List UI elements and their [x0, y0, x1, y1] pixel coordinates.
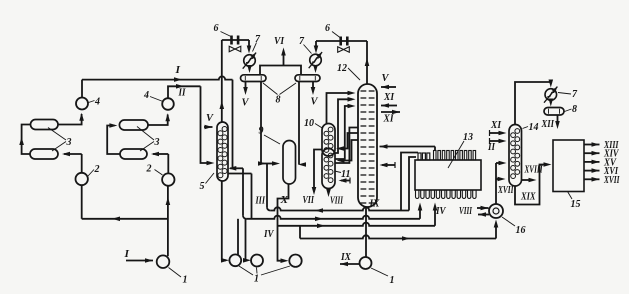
svg-text:9: 9: [259, 126, 264, 137]
svg-text:1: 1: [390, 275, 395, 286]
svg-text:XVII: XVII: [603, 175, 620, 186]
svg-text:I: I: [174, 65, 181, 76]
svg-text:11: 11: [341, 169, 350, 180]
svg-text:XI: XI: [383, 114, 395, 125]
svg-text:XI: XI: [383, 92, 395, 103]
svg-text:V: V: [206, 113, 214, 124]
svg-text:V: V: [311, 97, 319, 108]
svg-text:IV: IV: [263, 229, 274, 240]
svg-text:2: 2: [94, 164, 100, 175]
svg-text:I: I: [123, 249, 130, 260]
svg-text:V: V: [382, 73, 390, 84]
svg-text:1: 1: [254, 274, 259, 285]
svg-text:IX: IX: [369, 199, 381, 210]
svg-text:16: 16: [516, 225, 526, 236]
svg-text:VII: VII: [303, 195, 315, 206]
svg-text:6: 6: [214, 23, 219, 34]
svg-text:X: X: [279, 195, 289, 206]
svg-text:II: II: [487, 142, 496, 153]
svg-text:8: 8: [276, 95, 281, 106]
svg-text:4: 4: [143, 90, 149, 101]
svg-text:8: 8: [572, 104, 577, 115]
svg-text:10: 10: [304, 118, 314, 129]
svg-text:3: 3: [154, 137, 160, 148]
svg-text:V: V: [242, 98, 250, 109]
svg-text:1: 1: [183, 275, 188, 286]
svg-text:VIII: VIII: [330, 196, 344, 207]
svg-text:IV: IV: [435, 206, 446, 217]
svg-text:II: II: [178, 88, 187, 99]
svg-text:III: III: [255, 196, 266, 207]
svg-text:6: 6: [325, 23, 330, 34]
svg-text:5: 5: [200, 181, 205, 192]
svg-text:4: 4: [94, 97, 100, 108]
svg-text:VI: VI: [274, 36, 285, 47]
svg-text:7: 7: [572, 89, 578, 100]
svg-text:IX: IX: [340, 252, 352, 263]
svg-text:XIX: XIX: [520, 192, 536, 203]
svg-text:14: 14: [529, 122, 539, 133]
svg-text:15: 15: [571, 199, 581, 210]
svg-text:3: 3: [66, 137, 72, 148]
svg-text:XII: XII: [541, 119, 555, 130]
svg-text:VIII: VIII: [459, 206, 473, 217]
svg-text:13: 13: [463, 132, 473, 143]
svg-text:XVII: XVII: [497, 185, 514, 196]
svg-text:12: 12: [337, 63, 347, 74]
svg-text:2: 2: [146, 164, 152, 175]
svg-text:XI: XI: [490, 120, 502, 131]
